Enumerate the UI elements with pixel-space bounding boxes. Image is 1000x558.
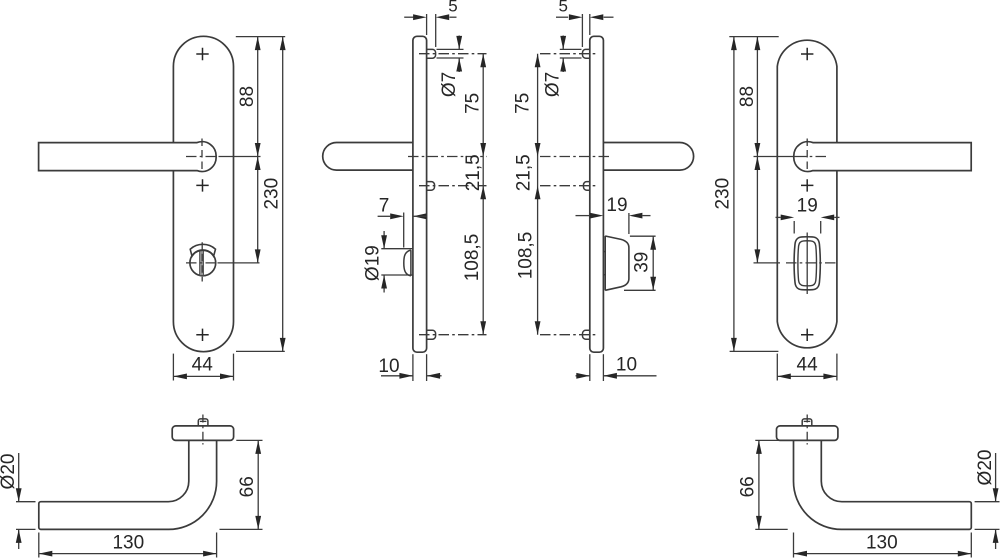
- view 6: dim 130 extension lines: [970, 533, 972, 558]
- view 4: handle centerline vertical: [806, 139, 808, 172]
- view 2: top fixing screw: [427, 49, 436, 58]
- view 4: dim 19 line with outside arrows: [776, 216, 781, 218]
- view 1: WC knob grip bar (grey): [200, 250, 204, 275]
- view 3: WC thumbturn side profile: [605, 236, 629, 291]
- view 3: dim 19 line with outside arrows: [576, 215, 590, 217]
- svg-text:Ø20: Ø20: [975, 450, 996, 486]
- view 5: dim 66 line with arrows: [257, 440, 259, 529]
- view 3: lever centerline: [540, 156, 611, 158]
- view 3: dim 19 extension line: [628, 213, 630, 234]
- view 6: spindle nub: [802, 419, 812, 426]
- svg-text:130: 130: [112, 533, 144, 554]
- view 2: top screw centerline: [419, 53, 487, 55]
- view 6: dim Dia20 extension lines: [975, 501, 1000, 503]
- view 2: emergency release button bump: [404, 250, 411, 276]
- svg-text:44: 44: [192, 355, 214, 376]
- view 2: lever centerline: [408, 156, 487, 158]
- view 4: handle centerline horizontal: [754, 156, 797, 158]
- svg-text:44: 44: [797, 355, 819, 376]
- view 3: top fixing screw: [583, 49, 590, 58]
- view 4: top extension line: [729, 36, 778, 38]
- view 3: lever side profile (stadium): [603, 143, 693, 171]
- view 4: cross mark below handle: [801, 179, 813, 191]
- view 1: cross mark below handle: [196, 179, 208, 191]
- svg-text:19: 19: [606, 195, 627, 216]
- view 4: WC thumbturn front outer outline: [794, 237, 820, 290]
- svg-text:5: 5: [448, 0, 457, 16]
- view 2: mid fixing screw: [427, 182, 435, 191]
- svg-text:39: 39: [632, 252, 653, 273]
- view 2: dim 5 line with outside arrows: [404, 16, 414, 18]
- view 6: dim 66 line with arrows: [758, 440, 760, 529]
- view 3: mid fixing screw: [584, 182, 590, 191]
- view 3: mid screw centerline: [540, 185, 598, 187]
- view 6: dim Dia20 line with outside arrows: [995, 453, 997, 502]
- view 1: WC knob circle: [190, 250, 216, 276]
- view 3: bottom screw centerline: [540, 334, 598, 336]
- view 2: mid screw centerline: [419, 185, 487, 187]
- view 3: top screw centerline: [540, 53, 598, 55]
- svg-text:230: 230: [261, 178, 282, 210]
- view 4: thumbturn centerline vertical: [806, 233, 808, 295]
- view 4: dim 19 extension lines: [793, 221, 795, 234]
- view 4: inside backplate front view - plate outline (right edge interrupted by lever): [777, 40, 837, 348]
- view 4: bottom extension line: [730, 350, 779, 352]
- view 2: backplate side profile: [413, 36, 427, 352]
- view 2: lever side profile (stadium): [323, 143, 413, 171]
- view 1: knob centerline vertical: [201, 242, 203, 281]
- view 5: lever body profile: [39, 440, 217, 529]
- svg-text:66: 66: [737, 476, 758, 497]
- view 1: handle centerline vertical: [201, 139, 203, 172]
- svg-text:66: 66: [237, 476, 258, 497]
- view 4: lever handle bar with round neck cap: [794, 142, 971, 172]
- svg-text:88: 88: [737, 86, 758, 107]
- view 4: WC thumbturn front inner outline: [798, 241, 817, 286]
- svg-text:108,5: 108,5: [462, 234, 483, 282]
- view 1: top extension line: [236, 36, 285, 38]
- view 2: dim 10 line with outside arrows: [381, 375, 413, 377]
- view 5: nub slot tick: [200, 420, 207, 422]
- view 1: knob centerline horizontal: [186, 262, 218, 264]
- svg-text:Ø7: Ø7: [542, 72, 563, 97]
- view 6: lever body profile: [794, 440, 972, 529]
- svg-text:19: 19: [797, 195, 818, 216]
- view 4: dim handle-to-knob line with arrows: [756, 157, 758, 263]
- view 1: lever handle bar with round neck cap: [39, 142, 217, 172]
- view 6: nub slot tick: [804, 420, 811, 422]
- svg-text:75: 75: [462, 93, 483, 114]
- view 3: dim 39 extension lines: [630, 235, 656, 237]
- svg-text:88: 88: [237, 86, 258, 107]
- view 3: chained dim line 75 / 21,5 / 108,5: [537, 54, 539, 335]
- view 5: dim Dia20 extension lines: [16, 501, 36, 503]
- view 2: dim Dia19 line with outside arrows: [383, 231, 385, 249]
- view 3: dim Dia7 extension lines: [560, 48, 582, 50]
- view 4: bottom screw cross mark: [801, 329, 813, 341]
- view 5: dim Dia20 line with outside arrows: [18, 453, 20, 502]
- view 5: dim 66 extension lines: [236, 439, 262, 441]
- svg-text:Ø20: Ø20: [0, 454, 19, 490]
- view 3: dim 39 line with arrows: [652, 236, 654, 290]
- view 6: lever cap plate: [777, 426, 838, 441]
- view 4: dim 44 extension lines: [776, 354, 778, 381]
- view 1: handle centerline horizontal: [186, 156, 219, 158]
- view 4: dim 44 line with arrows: [777, 375, 837, 377]
- svg-text:75: 75: [513, 93, 534, 114]
- view 3: thumbturn neck ticks: [603, 251, 605, 253]
- view 6: dim 130 line with arrows: [794, 553, 972, 555]
- view 1: dim 44 line with arrows: [173, 375, 233, 377]
- svg-text:7: 7: [379, 195, 390, 216]
- view 2: bottom screw centerline: [419, 334, 487, 336]
- view 4: thumbturn centerline horizontal: [754, 262, 781, 264]
- svg-text:230: 230: [713, 178, 734, 210]
- svg-text:10: 10: [378, 356, 399, 377]
- view 1: outside backplate front view - plate outline (left edge interrupted by lever): [173, 36, 233, 351]
- svg-text:Ø7: Ø7: [439, 72, 460, 97]
- view 1: bottom extension line: [236, 350, 285, 352]
- view 2: dim 10 extension lines: [412, 354, 414, 381]
- view 1: WC knob hood arc: [190, 244, 215, 256]
- view 3: dim 10 line with outside arrows: [576, 375, 590, 377]
- view 5: dim 130 extension lines: [38, 533, 40, 558]
- view 5: dim 130 line with arrows: [39, 553, 217, 555]
- view 5: cap centerline vertical: [202, 415, 204, 445]
- view 3: dim 5 extension lines: [589, 14, 591, 35]
- svg-text:21,5: 21,5: [514, 154, 535, 191]
- view 2: dim 5 extension lines: [426, 14, 428, 35]
- view 5: spindle nub: [198, 419, 208, 426]
- view 2: chained dim line 75 / 21,5 / 108,5: [482, 54, 484, 335]
- view 3: dim 5 line with outside arrows: [556, 16, 568, 18]
- svg-text:130: 130: [866, 533, 898, 554]
- view 3: bottom fixing screw: [583, 330, 590, 339]
- view 4: dim 88 line with arrows: [756, 37, 758, 157]
- view 3: dim Dia7 line with outside arrows: [562, 36, 564, 50]
- view 2: dim Dia19 extension lines: [381, 248, 413, 250]
- view 1: dim handle-to-knob line with arrows: [257, 157, 259, 263]
- svg-text:21,5: 21,5: [463, 154, 484, 191]
- view 1: top screw cross mark: [196, 48, 208, 60]
- view 1: dim 230 line with arrows: [282, 37, 284, 352]
- view 2: dim 7 extension line: [403, 213, 405, 248]
- view 3: backplate side profile: [590, 36, 604, 352]
- view 1: dim 44 extension lines: [172, 354, 174, 381]
- svg-text:108,5: 108,5: [516, 232, 537, 280]
- view 4: dim 230 line with arrows: [733, 37, 735, 352]
- view 5: lever cap plate: [172, 426, 233, 441]
- view 1: dim 88 line with arrows: [257, 37, 259, 157]
- view 2: dim Dia7 line with outside arrows: [458, 36, 460, 50]
- view 2: bottom fixing screw: [427, 330, 436, 339]
- view 1: bottom screw cross mark: [196, 329, 208, 341]
- svg-text:10: 10: [616, 355, 637, 376]
- view 3: dim 10 extension lines: [589, 354, 591, 381]
- view 2: dim 7 line with outside arrows: [378, 215, 391, 217]
- view 2: dim Dia7 extension lines: [437, 48, 464, 50]
- svg-text:Ø19: Ø19: [362, 245, 383, 281]
- view 6: cap centerline vertical: [806, 415, 808, 445]
- svg-text:5: 5: [558, 0, 567, 16]
- view 6: dim 66 extension lines: [755, 439, 779, 441]
- view 4: top screw cross mark: [801, 48, 813, 60]
